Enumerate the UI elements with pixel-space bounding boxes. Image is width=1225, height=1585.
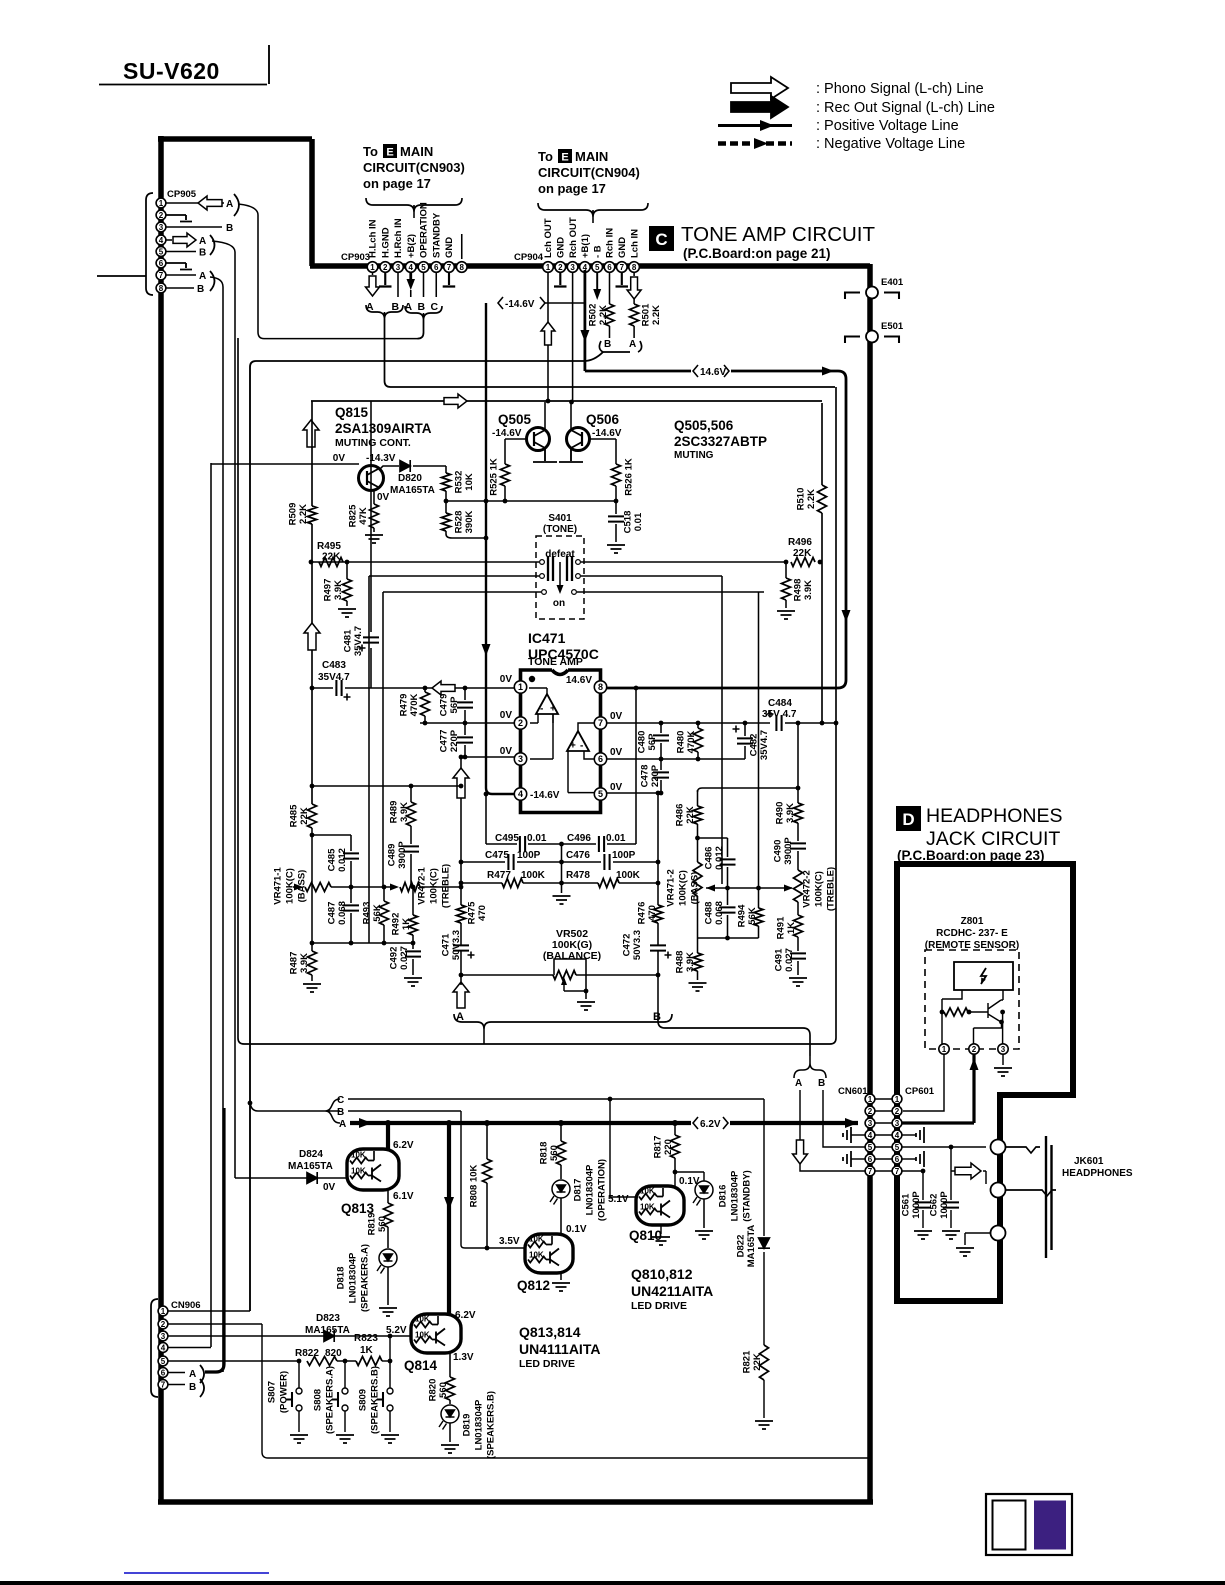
wire on line left bbox=[383, 591, 541, 593]
wire thick headphone box outline bbox=[897, 864, 1073, 1301]
svg-text:(BASS): (BASS) bbox=[689, 872, 700, 905]
wire A to CN601 pin7 with open down arrow bbox=[800, 1090, 865, 1171]
svg-text:E501: E501 bbox=[881, 321, 904, 332]
wire loop vertical x=636 from 14.6V line bbox=[635, 688, 637, 844]
svg-text:2: 2 bbox=[159, 211, 164, 220]
svg-text:H.Rch IN: H.Rch IN bbox=[393, 218, 404, 258]
svg-text:R485: R485 bbox=[288, 804, 299, 827]
svg-text:S401: S401 bbox=[548, 513, 572, 524]
wire x=798 up to pin7 line bbox=[797, 723, 799, 788]
svg-text:R822: R822 bbox=[295, 1348, 319, 1359]
connector CP905 pin 1 bbox=[156, 198, 166, 208]
svg-text:0V: 0V bbox=[377, 492, 390, 503]
svg-text:R818: R818 bbox=[538, 1142, 549, 1165]
arrowhead on 14.6V line bbox=[822, 367, 834, 376]
wire long bottom loop y=1044 to left rail x=238 bbox=[238, 338, 830, 1044]
wire Q815 emitter to D820 bbox=[380, 466, 399, 469]
capacitor C478 bbox=[660, 759, 662, 770]
svg-text:LED DRIVE: LED DRIVE bbox=[631, 1300, 687, 1312]
jack JK601 prongs bbox=[1005, 1147, 1056, 1196]
connector CN601 pin 6 bbox=[865, 1154, 875, 1164]
brace under B A bbox=[599, 341, 641, 352]
bracket C/B/A bbox=[325, 1099, 340, 1123]
svg-text:D823: D823 bbox=[316, 1313, 340, 1324]
svg-text:R808 10K: R808 10K bbox=[468, 1164, 479, 1207]
svg-text:2.2K: 2.2K bbox=[298, 504, 309, 524]
resistor R498 with ground bbox=[785, 562, 787, 578]
wire muting rect top edge 1 (phono line) bbox=[391, 386, 836, 388]
svg-text:D822: D822 bbox=[735, 1235, 746, 1258]
svg-text:35V4.7: 35V4.7 bbox=[318, 672, 350, 683]
svg-text:Rch OUT: Rch OUT bbox=[568, 217, 579, 258]
svg-text:3.9K: 3.9K bbox=[785, 803, 796, 823]
resistor R821 bbox=[760, 1345, 769, 1380]
svg-text:R479: R479 bbox=[398, 694, 409, 717]
wire R818/D817 column bbox=[560, 1123, 562, 1141]
svg-text:MA165TA: MA165TA bbox=[746, 1225, 757, 1268]
sensor pin3 ground bbox=[1002, 1054, 1004, 1065]
svg-text:Lch OUT: Lch OUT bbox=[543, 218, 554, 258]
svg-text:6: 6 bbox=[868, 1155, 873, 1164]
junction R822 left bbox=[297, 1359, 302, 1364]
wire bottom line y=943 left bbox=[312, 942, 413, 944]
svg-text:5: 5 bbox=[161, 1357, 166, 1366]
resistor R497 with ground bbox=[346, 562, 348, 579]
svg-text:3: 3 bbox=[159, 223, 164, 232]
svg-text:Rch IN: Rch IN bbox=[605, 228, 616, 258]
svg-text:7: 7 bbox=[868, 1167, 873, 1176]
connector CP904 pin 5 bbox=[592, 262, 603, 273]
diode D820 bbox=[400, 460, 410, 472]
svg-text:C479: C479 bbox=[438, 694, 449, 717]
svg-text:(BASS): (BASS) bbox=[296, 870, 307, 903]
connector CP904 pin 1 bbox=[543, 262, 554, 273]
capacitor C471 inline on riser A bbox=[453, 945, 469, 950]
svg-text:3: 3 bbox=[868, 1119, 873, 1128]
svg-text:2: 2 bbox=[383, 263, 388, 272]
svg-text:1: 1 bbox=[895, 1095, 900, 1104]
svg-text:6: 6 bbox=[434, 263, 439, 272]
svg-text:14.6V: 14.6V bbox=[566, 675, 592, 686]
connector CP905 pin 3 bbox=[156, 222, 166, 232]
svg-text:0V: 0V bbox=[610, 747, 623, 758]
svg-text:C476: C476 bbox=[566, 850, 590, 861]
svg-text:D824: D824 bbox=[299, 1149, 323, 1160]
brace over A/B CN601 feed bbox=[794, 1063, 826, 1078]
svg-text:H.Lch IN: H.Lch IN bbox=[368, 219, 379, 258]
svg-text:(SPEAKERS.B): (SPEAKERS.B) bbox=[369, 1366, 380, 1434]
wire -14.6V rail down the middle bbox=[486, 303, 517, 794]
connector CP903 pin 1 bbox=[367, 262, 378, 273]
svg-text:+: + bbox=[550, 704, 556, 715]
svg-text:1: 1 bbox=[370, 263, 375, 272]
svg-text:C: C bbox=[431, 301, 439, 313]
svg-text:0.01: 0.01 bbox=[527, 833, 547, 844]
svg-text:10K: 10K bbox=[351, 1151, 366, 1160]
svg-text:7: 7 bbox=[895, 1167, 900, 1176]
svg-text:JK601: JK601 bbox=[1074, 1156, 1104, 1167]
svg-text:C562: C562 bbox=[928, 1194, 939, 1217]
svg-text:R487: R487 bbox=[288, 952, 299, 975]
svg-text:7: 7 bbox=[447, 263, 452, 272]
svg-text:390K: 390K bbox=[464, 511, 475, 534]
brace CN903 group bbox=[366, 198, 462, 212]
svg-text:0.027: 0.027 bbox=[399, 946, 410, 970]
svg-text:IC471: IC471 bbox=[528, 630, 566, 646]
svg-text:220P: 220P bbox=[650, 764, 661, 787]
svg-text:C: C bbox=[337, 1095, 344, 1106]
CP905 pin1 wire and phono arrow (A) bbox=[166, 202, 224, 204]
CP903 pin4 rec arrow down, label A bbox=[409, 272, 412, 284]
CP903 pin3 wire B bbox=[397, 272, 399, 297]
svg-text:0V: 0V bbox=[500, 674, 513, 685]
svg-text:C478: C478 bbox=[639, 765, 650, 788]
resistor R494 bbox=[758, 888, 760, 908]
svg-text:10K: 10K bbox=[415, 1315, 430, 1324]
capacitor C492 with ground bbox=[412, 943, 414, 949]
svg-text:CN906: CN906 bbox=[171, 1300, 201, 1311]
svg-text:3: 3 bbox=[161, 1332, 166, 1341]
svg-text:6.2V: 6.2V bbox=[393, 1140, 414, 1151]
diode D824 bbox=[307, 1172, 317, 1184]
connector CP903 pin 7 bbox=[444, 262, 455, 273]
svg-text:C477: C477 bbox=[438, 730, 449, 753]
wire feedback line y=786 left bbox=[312, 785, 461, 787]
svg-text:56P: 56P bbox=[647, 733, 658, 751]
svg-text:22K: 22K bbox=[793, 548, 812, 559]
svg-text:10K: 10K bbox=[464, 473, 475, 491]
arrowheads on A line bbox=[359, 1118, 372, 1128]
svg-text:MUTING: MUTING bbox=[674, 450, 714, 461]
connector CN906 pin 3 bbox=[158, 1331, 168, 1341]
svg-text:0.1V: 0.1V bbox=[566, 1224, 587, 1235]
wire Q815 base line bbox=[211, 463, 359, 465]
wire Q814 output down R820 bbox=[449, 1353, 451, 1377]
svg-text:47K: 47K bbox=[358, 507, 369, 525]
wire D824 base line bbox=[235, 1177, 347, 1179]
transistor Q506 bbox=[567, 428, 590, 451]
svg-text:-14.3V: -14.3V bbox=[366, 453, 396, 464]
jack contact3 ground bbox=[965, 1233, 991, 1245]
IC471 pin 3 bbox=[514, 753, 526, 765]
svg-text:10K: 10K bbox=[640, 1203, 655, 1212]
switch S401 arrow bbox=[559, 562, 561, 590]
wire pin2 line left bbox=[420, 722, 514, 724]
svg-text:A: A bbox=[199, 271, 206, 282]
svg-text:7: 7 bbox=[620, 263, 625, 272]
svg-text:on: on bbox=[553, 598, 565, 609]
svg-text:R819: R819 bbox=[366, 1213, 377, 1236]
potentiometer VR471-2 vertical bbox=[693, 862, 702, 896]
connector CP905 bracket bbox=[146, 193, 153, 295]
svg-text:56P: 56P bbox=[449, 696, 460, 714]
IC471 body bbox=[521, 670, 601, 813]
resistor R819 bbox=[384, 1203, 393, 1227]
connector CP903 pin 8 bbox=[456, 262, 467, 273]
IC471 pin 6 bbox=[594, 753, 606, 765]
svg-text:R498: R498 bbox=[792, 579, 803, 602]
connector CP601 pin 6 bbox=[892, 1154, 902, 1164]
connector CN601 pin 1 bbox=[865, 1094, 875, 1104]
svg-text:470K: 470K bbox=[686, 731, 697, 754]
svg-text:S809: S809 bbox=[357, 1389, 368, 1411]
capacitor C486 bbox=[727, 838, 729, 857]
wire mute bias line y=501 bbox=[446, 500, 616, 502]
svg-text:S807: S807 bbox=[266, 1381, 277, 1403]
svg-text:MUTING CONT.: MUTING CONT. bbox=[335, 437, 411, 449]
connector CP601 pin 7 bbox=[892, 1166, 902, 1176]
svg-text:C482: C482 bbox=[748, 734, 759, 757]
svg-text:CP601: CP601 bbox=[905, 1086, 935, 1097]
CP903 pin7 T-stub bbox=[443, 272, 456, 287]
CN906 pin4 wire bbox=[168, 1347, 211, 1349]
svg-text:560: 560 bbox=[549, 1145, 560, 1161]
capacitor C487 bbox=[350, 887, 352, 903]
capacitor C562 with ground bbox=[950, 1147, 952, 1200]
svg-text:100K(C): 100K(C) bbox=[284, 868, 295, 904]
svg-text:560: 560 bbox=[438, 1382, 449, 1398]
svg-text:R820: R820 bbox=[427, 1379, 438, 1402]
junction dots on A line bbox=[385, 1120, 391, 1126]
IC471 pin 5 bbox=[594, 788, 606, 800]
svg-text:5: 5 bbox=[421, 263, 426, 272]
LED D818 bbox=[379, 1249, 397, 1267]
wire rail x=312 lower segment bbox=[311, 835, 313, 943]
connector CN601 pin 2 bbox=[865, 1106, 875, 1116]
footer black bar bbox=[0, 1581, 1225, 1585]
wire on line right bbox=[577, 591, 764, 593]
svg-text:B: B bbox=[418, 301, 426, 313]
wire wiper line y=888 right bbox=[706, 887, 792, 889]
svg-text:2: 2 bbox=[161, 1320, 166, 1329]
CP601 pin4 ground stub bbox=[902, 1134, 916, 1136]
svg-text:470K: 470K bbox=[409, 694, 420, 717]
potentiometer VR502 bbox=[461, 974, 553, 976]
svg-text:3.9K: 3.9K bbox=[803, 580, 814, 600]
svg-text:UN4111AITA: UN4111AITA bbox=[519, 1341, 600, 1357]
svg-text:: Phono Signal (L-ch) Line: : Phono Signal (L-ch) Line bbox=[816, 81, 984, 97]
svg-text:3.9K: 3.9K bbox=[399, 802, 410, 822]
title box rule bbox=[99, 45, 269, 85]
svg-text:-14.6V: -14.6V bbox=[530, 790, 560, 801]
resistor R487 with ground bbox=[311, 943, 313, 951]
svg-text:3900P: 3900P bbox=[783, 837, 794, 865]
resistor R492 bbox=[412, 887, 414, 915]
wire thick bottom border bbox=[158, 1499, 873, 1505]
svg-text:7: 7 bbox=[161, 1380, 166, 1389]
svg-text:H.GND: H.GND bbox=[380, 227, 391, 258]
connector CP601 pin 2 bbox=[892, 1106, 902, 1116]
svg-text:LN018304P: LN018304P bbox=[584, 1164, 595, 1215]
svg-text:R494: R494 bbox=[736, 904, 747, 927]
svg-text:C492: C492 bbox=[388, 947, 399, 970]
wire loop x=369 down bbox=[368, 576, 370, 943]
wire thick right border bbox=[867, 264, 873, 1502]
svg-text:- B: - B bbox=[592, 245, 603, 258]
svg-text:GND: GND bbox=[444, 237, 455, 258]
svg-text:2: 2 bbox=[895, 1107, 900, 1116]
svg-text:470: 470 bbox=[477, 905, 488, 921]
svg-text:5: 5 bbox=[895, 1143, 900, 1152]
resistor R485 bbox=[308, 804, 317, 828]
svg-text:100P: 100P bbox=[612, 850, 636, 861]
svg-text:8: 8 bbox=[632, 263, 637, 272]
resistor R479 bbox=[423, 686, 428, 691]
capacitor C475 bbox=[461, 861, 505, 863]
connector CP904 pin 6 bbox=[604, 262, 615, 273]
svg-text:MA165TA: MA165TA bbox=[305, 1325, 350, 1336]
CP903 pin6 wire C bbox=[435, 272, 437, 297]
svg-text:D820: D820 bbox=[398, 473, 422, 484]
svg-text:(BALANCE): (BALANCE) bbox=[543, 950, 601, 962]
wire Q810 collector link and D816 branch bbox=[675, 1172, 704, 1186]
svg-text:R497: R497 bbox=[322, 579, 333, 602]
svg-text:3.5V: 3.5V bbox=[499, 1236, 520, 1247]
svg-text:7: 7 bbox=[159, 271, 164, 280]
sensor internal transistor bbox=[988, 1000, 1003, 1022]
wire left vertical x=223 bbox=[210, 277, 223, 1372]
svg-text:E: E bbox=[561, 152, 568, 164]
svg-text:Lch IN: Lch IN bbox=[629, 229, 640, 258]
capacitor C561 with ground bbox=[922, 1171, 924, 1200]
svg-text:A: A bbox=[226, 199, 233, 210]
svg-text:-14.6V: -14.6V bbox=[592, 428, 622, 439]
wire loop x=383 down bbox=[382, 592, 384, 887]
svg-text:R509: R509 bbox=[287, 503, 298, 526]
svg-text:5: 5 bbox=[595, 263, 600, 272]
jack JK601 contact 1 bbox=[991, 1140, 1006, 1155]
connector CP903 pin 3 bbox=[393, 262, 404, 273]
wire R532/R528 column bbox=[446, 466, 486, 538]
wire -14.6V to +B column bbox=[545, 302, 585, 304]
svg-text:(STANDBY): (STANDBY) bbox=[741, 1170, 752, 1222]
CP903 pin2 T-stub bbox=[379, 272, 392, 287]
svg-text:100K(C): 100K(C) bbox=[677, 870, 688, 906]
svg-text:35V 4.7: 35V 4.7 bbox=[762, 709, 797, 720]
svg-text:0V: 0V bbox=[500, 710, 513, 721]
connector CP905 pin 8 bbox=[156, 283, 166, 293]
svg-text:-: - bbox=[540, 704, 543, 715]
wire left vertical x=211 bbox=[210, 463, 212, 1347]
wire Q815 collector to R825 bbox=[373, 490, 375, 504]
svg-text:CP903: CP903 bbox=[341, 252, 370, 263]
svg-text:4: 4 bbox=[161, 1343, 166, 1352]
wire long bottom line y=1458 from CN906 pin2 bbox=[262, 1324, 868, 1458]
svg-text:100K: 100K bbox=[521, 870, 546, 881]
jack JK601 contact 2 bbox=[991, 1183, 1006, 1198]
LED D819 bbox=[441, 1405, 459, 1423]
CP904 pin6 wire to R502 bbox=[609, 272, 611, 304]
svg-text:CP904: CP904 bbox=[514, 252, 544, 263]
CP905 pin4 phono arrow out (A) bbox=[166, 239, 172, 241]
svg-text:D819: D819 bbox=[461, 1414, 472, 1437]
svg-text:0V: 0V bbox=[323, 1182, 336, 1193]
resistor R495 with junctions bbox=[309, 560, 314, 565]
svg-text:B: B bbox=[197, 284, 204, 295]
svg-text:-14.6V: -14.6V bbox=[492, 428, 522, 439]
CP904 pin5 -B arrow down bbox=[596, 272, 598, 290]
wire Q810 base from C line bbox=[610, 1099, 636, 1197]
svg-text:C480: C480 bbox=[636, 731, 647, 754]
svg-text:6.2V: 6.2V bbox=[700, 1119, 721, 1130]
junction R822/R823 bbox=[343, 1359, 348, 1364]
svg-text:2: 2 bbox=[558, 263, 563, 272]
svg-text:4: 4 bbox=[895, 1131, 900, 1140]
svg-text:4: 4 bbox=[409, 263, 414, 272]
op-amp A inside IC471 bbox=[536, 694, 558, 714]
connector CN906 bracket bbox=[151, 1299, 158, 1397]
svg-text:2SA1309AIRTA: 2SA1309AIRTA bbox=[335, 421, 432, 436]
CN906 pin6 label A bbox=[168, 1372, 185, 1374]
svg-text:1000P: 1000P bbox=[911, 1191, 922, 1219]
sensor lightning mark bbox=[981, 968, 986, 984]
svg-text:(SPEAKERS.A): (SPEAKERS.A) bbox=[359, 1244, 370, 1312]
svg-text:D: D bbox=[902, 810, 914, 829]
svg-text:C489: C489 bbox=[386, 844, 397, 867]
svg-text:R525 1K: R525 1K bbox=[488, 458, 499, 496]
svg-text:R510: R510 bbox=[795, 488, 806, 511]
capacitor C482 bbox=[743, 721, 748, 726]
svg-text:0V: 0V bbox=[500, 746, 513, 757]
junction R532/R528 bbox=[444, 499, 449, 504]
wire +B feed from brace2 down to line y=338 bbox=[418, 320, 424, 339]
junction bias/rail bbox=[484, 499, 489, 504]
svg-text:R502: R502 bbox=[587, 304, 598, 327]
svg-text:2: 2 bbox=[972, 1045, 977, 1054]
ground under R821 bbox=[755, 1421, 773, 1429]
svg-text:56K: 56K bbox=[747, 907, 758, 925]
svg-text:1: 1 bbox=[161, 1307, 166, 1316]
CP904 pin3 wire down to Q506 collector bbox=[572, 272, 574, 400]
capacitor C496 loop bbox=[567, 843, 596, 845]
svg-text:LN018304P: LN018304P bbox=[473, 1399, 484, 1450]
svg-text:1K: 1K bbox=[786, 922, 797, 934]
svg-text:4: 4 bbox=[518, 789, 523, 799]
svg-text:+: + bbox=[570, 741, 576, 752]
svg-text:R478: R478 bbox=[566, 870, 590, 881]
svg-text:C496: C496 bbox=[567, 833, 591, 844]
svg-text:50V3.3: 50V3.3 bbox=[451, 930, 462, 960]
svg-text:R476: R476 bbox=[636, 902, 647, 925]
sensor pin 1 bbox=[939, 1044, 949, 1054]
svg-text:2.2K: 2.2K bbox=[651, 305, 662, 325]
svg-text:CIRCUIT(CN903): CIRCUIT(CN903) bbox=[363, 160, 465, 175]
brace under CP903 pins 4-6 bbox=[405, 306, 442, 320]
svg-text:R532: R532 bbox=[453, 471, 464, 494]
footer color swatch box bbox=[986, 1494, 1072, 1555]
svg-text:C487: C487 bbox=[326, 902, 337, 925]
capacitor C480 bbox=[659, 721, 664, 726]
svg-text:0V: 0V bbox=[333, 453, 346, 464]
svg-text:: Positive Voltage Line: : Positive Voltage Line bbox=[816, 118, 959, 134]
CN601 pin4 ground stub bbox=[851, 1134, 865, 1136]
wire R823 up to base line bbox=[389, 1336, 391, 1388]
resistor R491 bbox=[794, 915, 803, 937]
connector CP601 pin 5 bbox=[892, 1142, 902, 1152]
IC471 pin 1 bbox=[514, 681, 526, 693]
svg-text:E401: E401 bbox=[881, 277, 904, 288]
wire thick left border bbox=[158, 136, 164, 1502]
connector CN906 pin 7 bbox=[158, 1380, 168, 1390]
svg-text:R823: R823 bbox=[354, 1333, 378, 1344]
svg-text:1: 1 bbox=[942, 1045, 947, 1054]
LED D816 bbox=[695, 1181, 713, 1199]
center junction column C495/C496 bbox=[559, 842, 564, 847]
resistor R488 with ground bbox=[697, 938, 699, 953]
svg-text:(P.C.Board:on page 21): (P.C.Board:on page 21) bbox=[683, 246, 831, 261]
svg-text:1: 1 bbox=[546, 263, 551, 272]
svg-text:S808: S808 bbox=[312, 1389, 323, 1411]
